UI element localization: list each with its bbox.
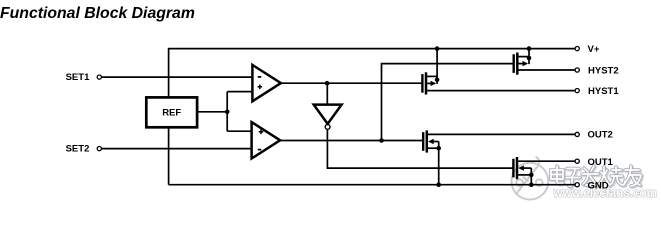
wire: node A vertical to both comparator + inputs — [226, 92, 228, 132]
node: Q2 drain at V+ rail junction dot — [527, 46, 532, 51]
U3 output bubble — [325, 125, 330, 130]
inverter U3 — [314, 105, 342, 124]
terminal HYST2 — [575, 68, 579, 72]
wire: Q1 source to HYST1 terminal — [427, 90, 575, 92]
terminal GND — [575, 183, 579, 187]
node: Q4 source at GND rail junction dot — [529, 182, 534, 187]
svg-text:REF: REF — [162, 108, 181, 119]
transistor Q4 (lower MOSFET to GND, driven by U3, OUT1) — [513, 157, 575, 185]
Q1 body arrow — [431, 81, 437, 86]
wire: REF output to node A — [198, 111, 228, 113]
watermark: chinese brush characters (stylized strokes) — [552, 167, 642, 187]
U1 plus sign — [258, 85, 263, 90]
svg-text:HYST2: HYST2 — [588, 65, 619, 76]
U2 minus sign — [258, 149, 262, 151]
node: Q1 body-drain junction dot — [435, 78, 440, 83]
wire: node A to U2 noninverting input — [227, 130, 252, 132]
svg-text:GND: GND — [588, 180, 609, 191]
wire: node C up and right to Q2 gate — [382, 64, 513, 141]
svg-text:OUT1: OUT1 — [588, 157, 614, 168]
wire: U3 output down and right to Q4 gate — [327, 129, 512, 168]
Q3 body arrow — [428, 139, 434, 144]
svg-text:SET1: SET1 — [66, 72, 90, 83]
Q2 body arrow — [523, 61, 529, 66]
block REF (voltage reference) — [146, 97, 197, 127]
node C: U2 output junction dot (HYST2 branch) — [379, 138, 384, 143]
node: Q3 body-source junction dot — [436, 146, 441, 151]
node A: REF output junction dot — [225, 110, 230, 115]
svg-text:SET2: SET2 — [66, 144, 90, 155]
terminal HYST1 — [575, 89, 579, 93]
svg-text:Functional Block Diagram: Functional Block Diagram — [0, 5, 195, 22]
wire: node A to U1 noninverting input — [227, 91, 252, 93]
watermark: elecfans logo emblem circle — [512, 157, 549, 200]
wire: U1 output to Q1 gate — [281, 82, 422, 84]
terminal V+ — [575, 47, 579, 51]
svg-text:HYST1: HYST1 — [588, 86, 619, 97]
terminal SET1 — [97, 75, 101, 79]
op-amp U2 (comparator, SET2) — [252, 122, 281, 158]
svg-text:OUT2: OUT2 — [588, 130, 613, 141]
node: Q4 body-source junction dot — [529, 173, 534, 178]
wire: Q2 source to HYST2 terminal — [518, 69, 575, 71]
wire: V+ top rail — [169, 48, 575, 50]
wire: GND bottom rail — [169, 184, 575, 186]
op-amp U1 (comparator, SET1) — [252, 65, 281, 101]
svg-text:V+: V+ — [588, 44, 600, 55]
terminal OUT1 — [575, 159, 579, 163]
wire: SET1 to comparator U1 inverting input — [102, 76, 253, 78]
wire: node B down to inverter U3 input — [326, 83, 328, 104]
U2 plus sign — [259, 130, 264, 135]
terminal OUT2 — [575, 132, 579, 136]
node B: U1 output junction dot (inverter tap) — [325, 81, 330, 86]
wire: left supply rail upper (V+ rail down to REF top) — [168, 48, 170, 96]
transistor Q2 (upper MOSFET to V+, driven by U2, HYST2) — [514, 49, 529, 75]
Q4 body arrow — [518, 165, 524, 170]
node: Q3 source at GND rail junction dot — [436, 182, 441, 187]
transistor Q1 (upper MOSFET to V+, driven by U1) — [422, 49, 437, 95]
wire: left supply rail lower (REF bottom down to GND rail) — [168, 129, 170, 185]
node: Q2 body-drain junction dot — [527, 56, 532, 61]
U1 minus sign — [258, 76, 262, 78]
transistor Q3 (lower MOSFET to GND, driven by U2, OUT2) — [423, 130, 575, 184]
terminal SET2 — [97, 147, 101, 151]
wire: U2 output to Q3 gate — [280, 140, 422, 142]
node: Q1 drain at V+ rail junction dot — [435, 46, 440, 51]
wire: SET2 to comparator U2 inverting input — [102, 148, 252, 150]
